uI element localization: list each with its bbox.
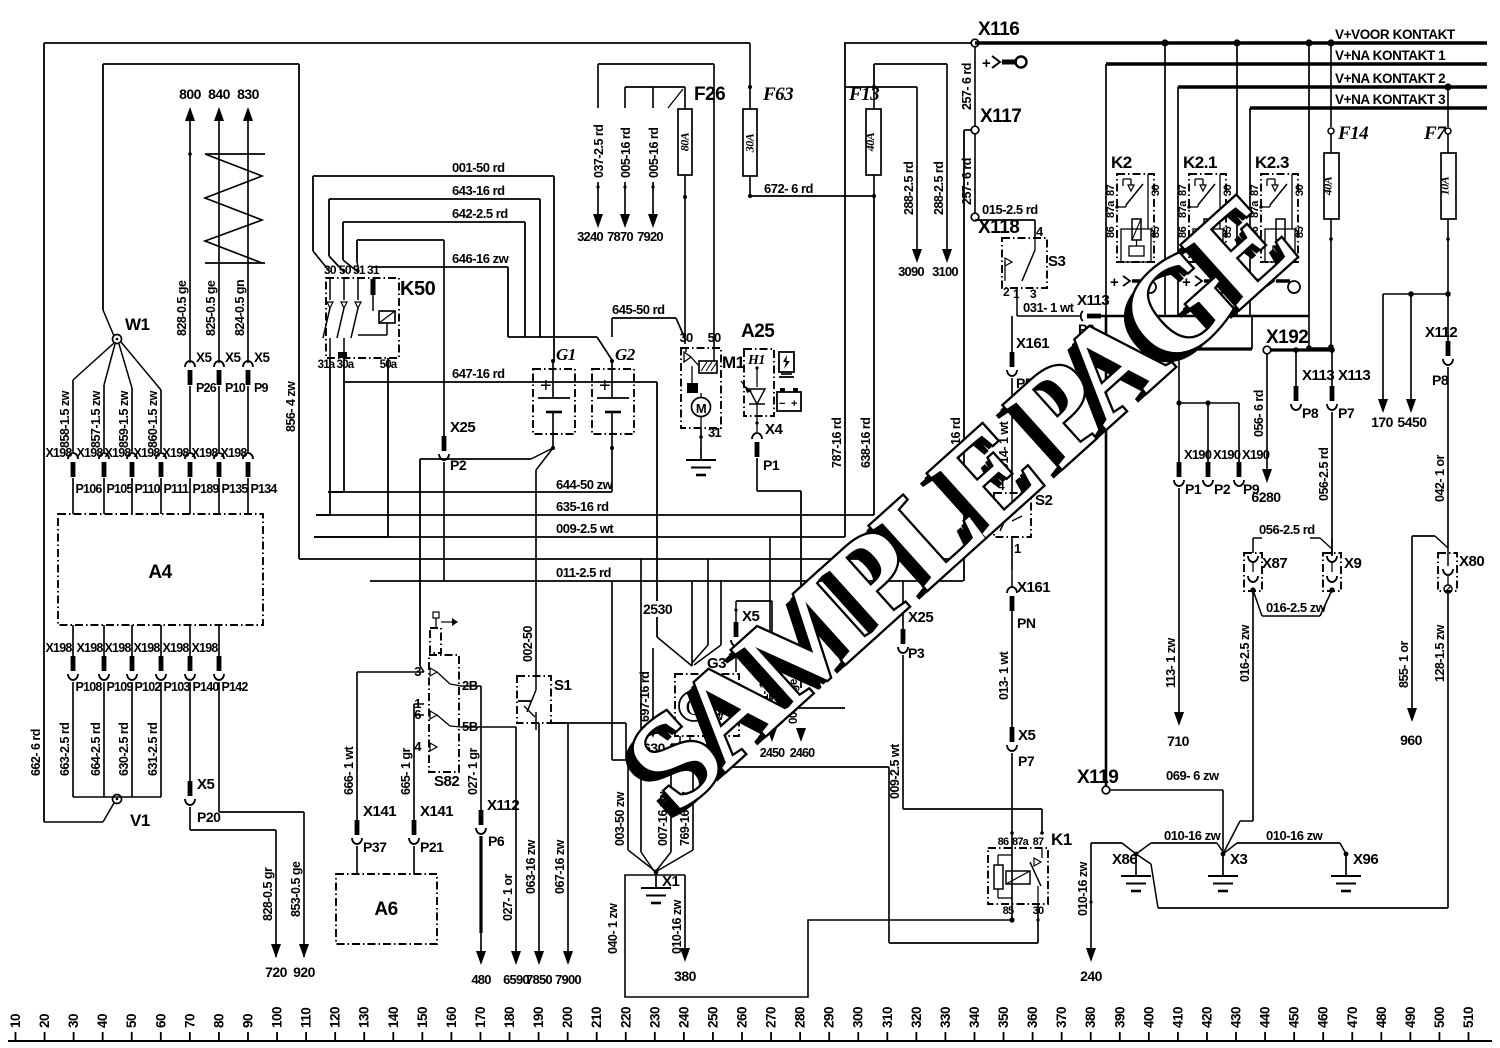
wire X192 feed <box>1251 316 1253 349</box>
wire W1 fan to P111 <box>121 342 161 390</box>
wire G1 to y=459 run <box>531 448 553 459</box>
wire y=64 feeder <box>598 63 714 65</box>
wire G3 top funnel <box>657 637 692 666</box>
wire 037-2.5 rd to 3240 <box>597 64 599 108</box>
svg-text:140: 140 <box>386 1007 401 1028</box>
wire 016-2.5 zw down from X87 <box>1252 590 1254 821</box>
svg-text:X190: X190 <box>1213 447 1241 462</box>
svg-text:288-2.5 rd: 288-2.5 rd <box>902 162 916 215</box>
svg-text:A25: A25 <box>741 321 775 342</box>
K2.1 coil <box>1204 219 1213 240</box>
indicator H1 box <box>744 349 774 416</box>
svg-text:920: 920 <box>293 964 316 980</box>
K2 contact <box>1128 185 1134 191</box>
svg-text:90: 90 <box>240 1014 255 1028</box>
svg-text:M1: M1 <box>722 353 745 372</box>
svg-text:663-2.5 rd: 663-2.5 rd <box>58 723 72 776</box>
svg-text:30: 30 <box>680 330 693 345</box>
svg-text:X9: X9 <box>1344 555 1362 572</box>
svg-text:X87: X87 <box>1262 555 1287 572</box>
svg-text:85: 85 <box>1003 905 1014 917</box>
svg-text:855- 1 or: 855- 1 or <box>1397 640 1411 688</box>
arrow to 720 <box>271 944 281 958</box>
wire S1 to 7850 arrow <box>538 723 540 958</box>
svg-text:X4: X4 <box>765 421 784 438</box>
svg-text:420: 420 <box>1199 1007 1214 1028</box>
svg-text:30: 30 <box>324 263 337 277</box>
ruler tick 180 <box>509 1032 511 1041</box>
svg-text:P110: P110 <box>135 482 161 496</box>
svg-text:200: 200 <box>560 1007 575 1028</box>
svg-text:490: 490 <box>1403 1007 1418 1028</box>
watermark SAMPLE PAGE <box>590 170 1319 847</box>
svg-text:2: 2 <box>1003 285 1010 299</box>
ruler tick 130 <box>363 1032 365 1041</box>
svg-text:643-16 rd: 643-16 rd <box>452 183 505 198</box>
svg-text:644-50 zw: 644-50 zw <box>556 477 614 492</box>
svg-text:X198: X198 <box>163 446 190 460</box>
svg-text:128-1.5 zw: 128-1.5 zw <box>1433 624 1447 682</box>
wire 665-1 gr pin1 to X141 P21 <box>414 703 424 705</box>
ruler tick 70 <box>189 1032 191 1041</box>
svg-text:010-16 zw: 010-16 zw <box>1266 828 1324 843</box>
svg-text:7920: 7920 <box>637 229 663 244</box>
ruler tick 270 <box>770 1032 772 1041</box>
ruler tick 100 <box>276 1032 278 1041</box>
svg-text:720: 720 <box>265 964 288 980</box>
connector X5 pin P26 <box>185 361 195 367</box>
resistor W1 glow element zigzag <box>205 153 265 155</box>
S82 plug symbol above <box>430 628 441 653</box>
svg-text:859-1.5 zw: 859-1.5 zw <box>117 390 131 448</box>
svg-text:330: 330 <box>938 1007 953 1028</box>
K2.3 coil <box>1276 219 1285 240</box>
svg-text:400: 400 <box>1141 1007 1156 1028</box>
svg-text:P2: P2 <box>1214 481 1231 497</box>
ruler tick 360 <box>1032 1032 1034 1041</box>
svg-text:470: 470 <box>1345 1007 1360 1028</box>
svg-text:X198: X198 <box>77 641 104 655</box>
wire 646 drop to y=337 <box>507 267 509 337</box>
svg-text:X190: X190 <box>1242 447 1270 462</box>
svg-text:440: 440 <box>1258 1007 1273 1028</box>
svg-text:31: 31 <box>367 263 380 277</box>
svg-text:009-2.5 wt: 009-2.5 wt <box>556 521 614 536</box>
svg-text:645-50 rd: 645-50 rd <box>612 302 665 317</box>
svg-text:P6: P6 <box>488 833 505 849</box>
arrow to 920 <box>299 944 309 958</box>
wire 056-2.5 rd from P7 <box>1331 412 1333 556</box>
svg-text:002-50: 002-50 <box>521 626 535 662</box>
ruler tick 390 <box>1119 1032 1121 1041</box>
svg-text:W1: W1 <box>125 315 150 334</box>
svg-text:X5: X5 <box>197 776 215 793</box>
svg-text:−: − <box>779 398 785 410</box>
svg-text:013- 1 wt: 013- 1 wt <box>997 650 1011 700</box>
wire 056-6 rd to 6280 <box>1266 354 1268 469</box>
K2 inner keepout box <box>1121 229 1151 262</box>
svg-text:K2.3: K2.3 <box>1255 153 1289 172</box>
K50 contact pole 1 <box>329 278 331 300</box>
G3 bottom wires to W <box>679 736 681 744</box>
svg-text:016-2.5 zw: 016-2.5 zw <box>1266 600 1327 615</box>
svg-text:010-16 zw: 010-16 zw <box>1076 861 1090 916</box>
wire 005-16 rd to 7920 <box>652 87 654 108</box>
svg-text:042- 1 or: 042- 1 or <box>1433 454 1447 502</box>
svg-text:X96: X96 <box>1353 851 1378 868</box>
svg-text:X116: X116 <box>978 19 1019 40</box>
svg-text:288-2.5 rd: 288-2.5 rd <box>932 162 946 215</box>
wire W1 up-left to box <box>103 310 114 336</box>
svg-text:30: 30 <box>1150 184 1162 196</box>
svg-text:056-2.5 rd: 056-2.5 rd <box>1259 522 1315 537</box>
svg-text:380: 380 <box>1083 1007 1098 1028</box>
svg-text:828-0.5 gr: 828-0.5 gr <box>261 867 275 921</box>
svg-text:857-1.5 zw: 857-1.5 zw <box>89 390 103 448</box>
connector row X198 out of A4 bottom <box>72 625 74 656</box>
connector X25 pin P2 <box>443 240 445 436</box>
ruler tick 320 <box>915 1032 917 1041</box>
svg-text:130: 130 <box>357 1007 372 1028</box>
wire W1 fan to P106 <box>73 343 114 380</box>
wire 856-4 zw horizontal run y=559 <box>299 558 963 560</box>
relay rail y=316 <box>1098 315 1309 318</box>
svg-text:800: 800 <box>179 86 202 102</box>
svg-text:300: 300 <box>851 1007 866 1028</box>
svg-text:X113: X113 <box>1302 367 1334 384</box>
svg-text:70: 70 <box>182 1014 197 1028</box>
svg-text:P142: P142 <box>222 680 249 694</box>
svg-text:240: 240 <box>676 1007 691 1028</box>
ruler tick 260 <box>741 1032 743 1041</box>
control unit A6 <box>336 874 437 944</box>
ruler tick 410 <box>1177 1032 1179 1041</box>
svg-text:840: 840 <box>208 86 231 102</box>
ruler tick 240 <box>683 1032 685 1041</box>
ruler tick 500 <box>1438 1032 1440 1041</box>
svg-text:001-50 rd: 001-50 rd <box>452 160 505 175</box>
wire 638-16 rd vertical <box>873 196 875 515</box>
connector X141 pin P21 <box>412 820 417 835</box>
svg-text:069- 6 zw: 069- 6 zw <box>1166 768 1220 783</box>
svg-text:X141: X141 <box>420 803 453 820</box>
svg-text:H1: H1 <box>747 353 765 368</box>
ruler tick 160 <box>450 1032 452 1041</box>
H1 diode symbol <box>755 366 758 369</box>
svg-text:6590: 6590 <box>503 972 529 987</box>
node V1 splice bar <box>73 796 161 798</box>
svg-text:X198: X198 <box>221 446 248 460</box>
svg-text:P21: P21 <box>420 839 444 855</box>
svg-text:P9: P9 <box>1243 481 1260 497</box>
svg-text:X161: X161 <box>1017 579 1050 596</box>
ruler tick 170 <box>479 1032 481 1041</box>
svg-text:X141: X141 <box>363 803 396 820</box>
svg-text:631-2.5 rd: 631-2.5 rd <box>146 723 160 776</box>
svg-text:450: 450 <box>1287 1007 1302 1028</box>
ruler tick 420 <box>1206 1032 1208 1041</box>
svg-text:P3: P3 <box>908 645 925 661</box>
svg-text:635-16 rd: 635-16 rd <box>556 499 609 514</box>
ruler baseline <box>8 1040 1492 1042</box>
wire 697-16 rd with 630 arrow <box>652 648 654 724</box>
svg-text:K2.1: K2.1 <box>1183 153 1217 172</box>
K2.3 inner keepout box <box>1265 229 1295 262</box>
svg-text:638-16 rd: 638-16 rd <box>859 418 873 468</box>
svg-text:P10: P10 <box>225 381 246 395</box>
G3 generator symbol <box>679 691 709 721</box>
wire y=87 feeder <box>625 86 685 88</box>
wire 288-2.5 rd to 3090 <box>916 87 918 249</box>
wire X3 to X96 link <box>1223 843 1237 854</box>
svg-text:X5: X5 <box>196 350 213 365</box>
wire 257-6 rd X117 to X118 <box>974 134 976 213</box>
svg-text:X5: X5 <box>254 350 271 365</box>
svg-text:460: 460 <box>1316 1007 1331 1028</box>
svg-text:040- 1 zw: 040- 1 zw <box>606 903 620 954</box>
wire P108 down to V1 bar <box>72 682 74 797</box>
svg-text:X5: X5 <box>1018 727 1036 744</box>
svg-text:380: 380 <box>674 968 697 984</box>
svg-text:220: 220 <box>618 1007 633 1028</box>
svg-text:X198: X198 <box>163 641 190 655</box>
svg-text:P135: P135 <box>222 482 249 496</box>
ruler tick 230 <box>654 1032 656 1041</box>
wire top supply line y=43 left segment <box>44 42 750 44</box>
svg-text:X112: X112 <box>1425 324 1457 341</box>
svg-text:51: 51 <box>353 263 366 277</box>
ruler tick 480 <box>1380 1032 1382 1041</box>
wire 2530 from 647 line <box>656 382 658 601</box>
svg-text:P111: P111 <box>164 482 189 496</box>
svg-text:50: 50 <box>124 1014 139 1028</box>
wire 787 routing box <box>769 537 771 708</box>
ruler tick 370 <box>1061 1032 1063 1041</box>
svg-text:X80: X80 <box>1459 553 1484 570</box>
svg-text:662- 6 rd: 662- 6 rd <box>29 729 43 776</box>
net X192 right bar <box>1271 348 1333 351</box>
svg-text:P7: P7 <box>1018 753 1035 769</box>
svg-text:350: 350 <box>996 1007 1011 1028</box>
svg-text:210: 210 <box>589 1007 604 1028</box>
wire to 2450 arrow <box>771 601 773 728</box>
svg-text:87: 87 <box>1033 836 1044 848</box>
svg-text:87: 87 <box>1177 184 1189 196</box>
svg-text:30a: 30a <box>337 359 355 371</box>
svg-text:647-16 rd: 647-16 rd <box>452 366 505 381</box>
wire P142 down to 920 arrow <box>218 682 220 812</box>
svg-text:630-2.5 rd: 630-2.5 rd <box>117 723 131 776</box>
wire 001-50 rd down to G1 <box>553 176 555 360</box>
svg-text:F7: F7 <box>1423 123 1447 144</box>
relay K2.1 frame sides <box>1177 87 1179 316</box>
node W1 inner box <box>103 63 299 65</box>
svg-text:003-50 zw: 003-50 zw <box>613 791 627 846</box>
ruler tick 350 <box>1003 1032 1005 1041</box>
ECU box A4 <box>58 514 263 625</box>
wire 288-2.5 rd to 3100 <box>946 64 948 249</box>
svg-text:F63: F63 <box>762 84 793 105</box>
svg-text:510: 510 <box>1461 1007 1476 1028</box>
svg-text:X3: X3 <box>1230 851 1248 868</box>
wire 042-1 or <box>1447 367 1449 548</box>
connector X5 pin P9 <box>243 361 253 367</box>
svg-text:F26: F26 <box>694 84 725 105</box>
svg-text:V+NA KONTAKT 1: V+NA KONTAKT 1 <box>1335 48 1446 63</box>
K2.1 inner keepout box <box>1193 229 1223 262</box>
svg-text:280: 280 <box>793 1007 808 1028</box>
ruler tick 510 <box>1468 1032 1470 1041</box>
ruler tick 450 <box>1293 1032 1295 1041</box>
svg-text:X117: X117 <box>980 106 1021 127</box>
svg-text:87: 87 <box>1105 184 1117 196</box>
svg-text:+: + <box>982 55 991 72</box>
svg-text:642-2.5 rd: 642-2.5 rd <box>452 206 508 221</box>
svg-text:V+NA KONTAKT 3: V+NA KONTAKT 3 <box>1335 92 1446 107</box>
svg-text:P105: P105 <box>107 482 134 496</box>
ruler tick 80 <box>218 1032 220 1041</box>
svg-text:S1: S1 <box>554 677 572 694</box>
svg-text:370: 370 <box>1054 1007 1069 1028</box>
svg-text:027- 1 gr: 027- 1 gr <box>466 747 480 795</box>
svg-text:K50: K50 <box>400 278 436 300</box>
svg-text:X86: X86 <box>1112 851 1137 868</box>
ruler tick 460 <box>1322 1032 1324 1041</box>
svg-text:10A: 10A <box>1438 176 1452 195</box>
svg-text:+: + <box>791 398 797 410</box>
svg-text:V1: V1 <box>130 811 150 830</box>
node F7 split y=294 <box>1445 291 1451 297</box>
wire P2 to relay rail <box>1101 315 1106 317</box>
ruler tick 310 <box>886 1032 888 1041</box>
svg-text:063-16 zw: 063-16 zw <box>524 839 538 894</box>
svg-text:X25: X25 <box>450 419 475 436</box>
X1 frame box <box>625 875 1012 997</box>
K2 coil <box>1132 219 1141 240</box>
wire 013- 1 wt <box>1011 611 1013 727</box>
svg-text:X198: X198 <box>134 641 161 655</box>
wire 643 drop to y=337 <box>539 199 541 337</box>
wire P1 down and to 2460 drop <box>756 458 758 491</box>
svg-text:016-2.5 zw: 016-2.5 zw <box>1238 624 1252 682</box>
wire 016 into X3 <box>1240 820 1253 822</box>
svg-text:P189: P189 <box>193 482 220 496</box>
svg-text:20: 20 <box>37 1014 52 1028</box>
svg-text:824-0.5 gn: 824-0.5 gn <box>233 280 247 336</box>
wire 005-16 rd to 7870 <box>624 87 626 108</box>
K50 contact pole 2 <box>343 278 345 300</box>
ruler tick 10 <box>15 1032 17 1041</box>
svg-text:V+VOOR KONTAKT: V+VOOR KONTAKT <box>1335 27 1456 42</box>
svg-text:710: 710 <box>1167 733 1190 749</box>
wire P2 down to 011 line <box>443 462 445 581</box>
wire P103 down to V1 bar <box>160 682 162 797</box>
svg-text:005-16 rd: 005-16 rd <box>619 128 633 178</box>
wire 003-50 zw <box>611 581 613 760</box>
wire frame net y=908 <box>1158 907 1448 909</box>
svg-text:V+NA KONTAKT 2: V+NA KONTAKT 2 <box>1335 71 1445 86</box>
svg-text:60: 60 <box>153 1014 168 1028</box>
svg-text:825-0.5 ge: 825-0.5 ge <box>204 280 218 336</box>
svg-text:85: 85 <box>1294 226 1306 238</box>
svg-text:257- 6 rd: 257- 6 rd <box>960 63 974 110</box>
svg-text:X198: X198 <box>46 446 73 460</box>
svg-text:X113: X113 <box>1338 367 1370 384</box>
ruler tick 280 <box>799 1032 801 1041</box>
svg-text:290: 290 <box>822 1007 837 1028</box>
svg-text:150: 150 <box>415 1007 430 1028</box>
svg-text:170: 170 <box>1371 414 1394 430</box>
node X1 <box>654 870 659 875</box>
svg-text:A4: A4 <box>148 562 172 583</box>
svg-text:787-16 rd: 787-16 rd <box>830 418 844 468</box>
wire 113-1 zw to 710 <box>1178 488 1180 712</box>
svg-text:A6: A6 <box>374 899 397 920</box>
wire thick to 480 arrow <box>479 836 482 933</box>
svg-text:056-2.5 rd: 056-2.5 rd <box>1317 448 1331 501</box>
svg-text:828-0.5 ge: 828-0.5 ge <box>175 280 189 336</box>
wire X86 to X3 link <box>1136 843 1151 854</box>
wire P7 to K1 coil <box>1011 753 1013 920</box>
svg-text:X198: X198 <box>134 446 161 460</box>
ruler tick 300 <box>857 1032 859 1041</box>
svg-text:665- 1 gr: 665- 1 gr <box>399 747 413 795</box>
svg-text:X198: X198 <box>192 446 219 460</box>
wire P140 down to X5 P20 <box>189 682 191 781</box>
wire to 7900 arrow <box>567 723 569 958</box>
svg-text:87a: 87a <box>1012 836 1030 848</box>
wire 787-16 rd vertical <box>844 43 846 537</box>
svg-text:7850: 7850 <box>526 972 552 987</box>
svg-text:P103: P103 <box>164 680 191 694</box>
wire to 5450 arrow <box>1410 294 1412 399</box>
wire y=240 link <box>357 239 444 241</box>
wire left border vertical 662-6 rd <box>43 43 45 822</box>
wire 027-1 gr 2B to X112 P6 <box>461 685 481 687</box>
svg-text:340: 340 <box>967 1007 982 1028</box>
svg-text:87: 87 <box>1249 184 1261 196</box>
wire S1 return to funnel <box>535 723 537 730</box>
svg-text:009-2.5 wt: 009-2.5 wt <box>888 743 902 799</box>
svg-text:390: 390 <box>1112 1007 1127 1028</box>
svg-text:190: 190 <box>531 1007 546 1028</box>
wire to 170 arrow <box>1382 294 1384 399</box>
ruler tick 90 <box>247 1032 249 1041</box>
wire F14 tail link <box>1308 316 1310 348</box>
wire to 855/960 branch <box>1412 535 1435 537</box>
svg-text:410: 410 <box>1170 1007 1185 1028</box>
svg-text:100: 100 <box>270 1007 285 1028</box>
svg-text:X5: X5 <box>225 350 242 365</box>
svg-text:056- 6 rd: 056- 6 rd <box>1252 390 1266 437</box>
svg-text:P8: P8 <box>1432 372 1449 388</box>
svg-text:860-1.5 zw: 860-1.5 zw <box>146 390 160 448</box>
ruler tick 380 <box>1090 1032 1092 1041</box>
ruler tick 120 <box>334 1032 336 1041</box>
net X192 left bar <box>1179 347 1252 350</box>
K1 coil <box>994 865 1003 889</box>
connector X141 pin P37 <box>355 820 360 835</box>
svg-text:31: 31 <box>708 425 721 440</box>
svg-text:P108: P108 <box>76 680 103 694</box>
K50 coil <box>379 311 395 323</box>
K2.3 contact <box>1272 185 1278 191</box>
ruler tick 150 <box>421 1032 423 1041</box>
svg-text:X119: X119 <box>1077 767 1118 788</box>
M1 motor <box>692 398 711 417</box>
K2.1 contact <box>1200 185 1206 191</box>
svg-text:K1: K1 <box>1051 830 1072 849</box>
